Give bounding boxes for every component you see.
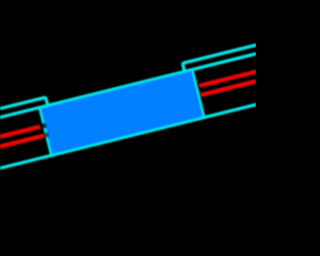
wire: lower courtyard line (0, 90, 316, 182)
wire: right lead trace 1 (199, 59, 308, 86)
wire: right lead trace 2 (201, 68, 311, 95)
wire: right upper outline hook (182, 33, 304, 71)
wire: left upper outline hook (0, 97, 48, 133)
wire: left lead trace 1 (0, 127, 40, 152)
wire: left lead trace 2 (0, 135, 44, 160)
wire: body top line (0, 42, 304, 134)
resistor body (39, 70, 204, 156)
pad notch at left lead 1 (40, 123, 46, 129)
pad notch at left lead 2 (44, 132, 49, 137)
